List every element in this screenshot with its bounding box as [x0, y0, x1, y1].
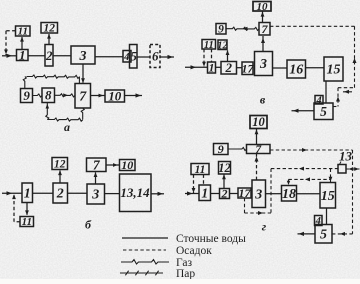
svg-text:10: 10 [108, 88, 122, 103]
svg-text:Пар: Пар [176, 268, 195, 279]
svg-text:5: 5 [320, 104, 327, 119]
svg-text:9: 9 [23, 88, 30, 103]
svg-text:17: 17 [239, 186, 252, 200]
svg-text:9: 9 [218, 24, 224, 36]
svg-text:1: 1 [19, 48, 26, 63]
svg-text:11: 11 [204, 40, 214, 51]
svg-text:а: а [64, 120, 70, 134]
svg-text:10: 10 [252, 115, 265, 129]
svg-text:4: 4 [123, 52, 129, 63]
svg-text:3: 3 [254, 187, 262, 202]
svg-text:1: 1 [209, 61, 215, 75]
svg-text:3: 3 [91, 188, 99, 203]
svg-text:б: б [85, 218, 92, 232]
svg-text:5: 5 [320, 227, 327, 242]
svg-text:10: 10 [257, 1, 269, 13]
svg-text:2: 2 [45, 48, 53, 63]
svg-text:г: г [262, 220, 267, 234]
svg-text:12: 12 [217, 40, 228, 51]
svg-text:12: 12 [218, 161, 231, 175]
svg-text:15: 15 [327, 63, 341, 78]
svg-text:Сточные воды: Сточные воды [176, 233, 246, 245]
svg-text:6: 6 [152, 49, 159, 64]
svg-text:13,14: 13,14 [120, 185, 150, 200]
svg-text:1: 1 [201, 185, 208, 200]
svg-text:8: 8 [45, 88, 52, 103]
svg-text:7: 7 [79, 89, 87, 104]
svg-text:15: 15 [321, 189, 335, 204]
svg-text:18: 18 [282, 187, 296, 202]
svg-text:9: 9 [218, 142, 224, 156]
svg-text:5: 5 [131, 50, 137, 64]
svg-text:17: 17 [242, 61, 255, 75]
svg-text:3: 3 [259, 57, 267, 72]
svg-text:12: 12 [44, 23, 56, 35]
svg-text:2: 2 [221, 187, 228, 201]
svg-text:16: 16 [289, 63, 303, 78]
svg-text:10: 10 [121, 158, 133, 172]
svg-text:Осадок: Осадок [176, 245, 212, 257]
svg-text:12: 12 [54, 158, 66, 170]
svg-text:11: 11 [22, 216, 32, 228]
svg-text:в: в [260, 93, 266, 107]
svg-text:2: 2 [56, 187, 64, 202]
svg-text:7: 7 [262, 22, 269, 36]
svg-text:11: 11 [195, 164, 206, 176]
svg-text:11: 11 [18, 26, 28, 38]
svg-text:1: 1 [24, 187, 31, 202]
svg-text:2: 2 [225, 60, 233, 75]
svg-text:3: 3 [79, 49, 87, 64]
svg-text:13: 13 [339, 149, 353, 164]
